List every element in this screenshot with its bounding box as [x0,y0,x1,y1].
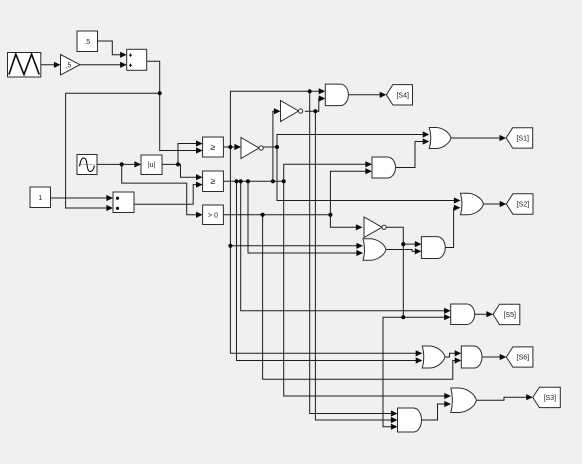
svg-text:[S3]: [S3] [544,395,557,402]
svg-text:.5: .5 [84,39,90,46]
svg-text:1: 1 [38,195,42,202]
svg-text:[S2]: [S2] [517,202,530,209]
svg-text:[S5]: [S5] [503,312,516,319]
svg-text:≥: ≥ [211,142,216,152]
svg-text:> 0: > 0 [208,213,218,220]
svg-text:[S6]: [S6] [517,355,530,362]
svg-text:[S1]: [S1] [516,135,529,142]
svg-text:|u|: |u| [148,162,156,169]
svg-text:.5: .5 [66,62,72,69]
svg-text:[S4]: [S4] [396,92,409,99]
svg-text:≥: ≥ [211,176,216,186]
